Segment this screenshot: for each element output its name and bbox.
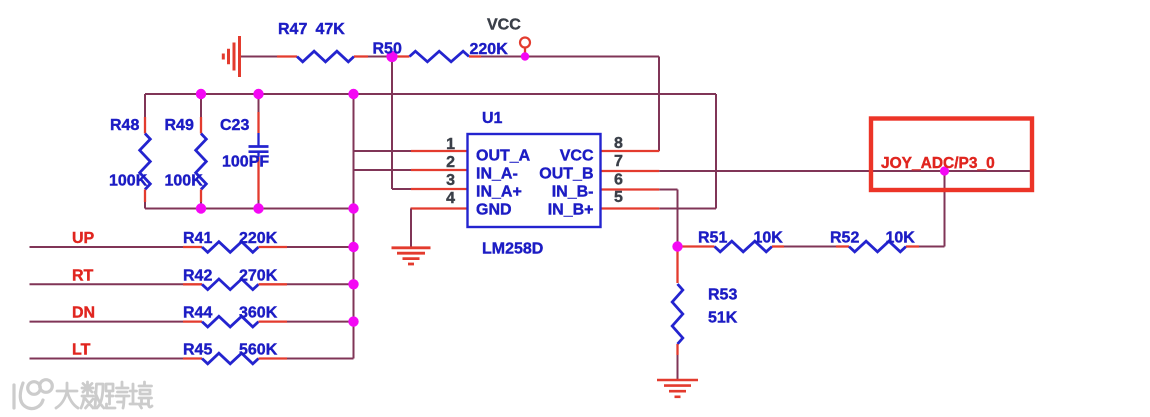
svg-text:R49: R49 <box>165 117 194 134</box>
svg-text:VCC: VCC <box>487 17 521 34</box>
svg-text:3: 3 <box>446 172 455 189</box>
svg-text:R50: R50 <box>373 41 402 58</box>
svg-text:51K: 51K <box>708 310 738 327</box>
svg-text:220K: 220K <box>239 230 278 247</box>
svg-text:1: 1 <box>446 136 455 153</box>
svg-text:R42: R42 <box>183 267 212 284</box>
svg-text:270K: 270K <box>239 267 278 284</box>
svg-text:VCC: VCC <box>560 148 594 165</box>
svg-text:OUT_A: OUT_A <box>476 148 531 165</box>
svg-text:560K: 560K <box>239 342 278 359</box>
svg-text:2: 2 <box>446 154 455 171</box>
svg-text:JOY_ADC/P3_0: JOY_ADC/P3_0 <box>881 155 995 172</box>
svg-text:47K: 47K <box>316 21 346 38</box>
svg-text:UP: UP <box>72 230 95 247</box>
svg-text:GND: GND <box>476 202 512 219</box>
svg-text:R52: R52 <box>830 230 859 247</box>
svg-text:4: 4 <box>446 190 455 207</box>
svg-text:100K: 100K <box>109 173 148 190</box>
svg-text:100K: 100K <box>165 173 204 190</box>
svg-text:R53: R53 <box>708 287 737 304</box>
svg-text:7: 7 <box>614 153 623 170</box>
svg-text:R51: R51 <box>698 230 727 247</box>
svg-text:R41: R41 <box>183 230 212 247</box>
svg-text:OUT_B: OUT_B <box>539 166 593 183</box>
svg-text:8: 8 <box>614 135 623 152</box>
svg-text:C23: C23 <box>220 117 249 134</box>
svg-text:RT: RT <box>72 267 94 284</box>
svg-text:IN_A-: IN_A- <box>476 166 518 183</box>
svg-text:R48: R48 <box>110 117 139 134</box>
svg-text:IN_A+: IN_A+ <box>476 184 522 201</box>
svg-text:U1: U1 <box>482 110 503 127</box>
svg-text:LT: LT <box>72 342 91 359</box>
svg-text:IN_B-: IN_B- <box>552 184 594 201</box>
svg-text:R44: R44 <box>183 305 212 322</box>
svg-text:10K: 10K <box>886 230 916 247</box>
svg-text:IN_B+: IN_B+ <box>548 202 594 219</box>
svg-text:DN: DN <box>72 305 95 322</box>
svg-text:LM258D: LM258D <box>482 241 543 258</box>
svg-text:6: 6 <box>614 172 623 189</box>
svg-text:220K: 220K <box>470 41 509 58</box>
svg-text:R45: R45 <box>183 342 212 359</box>
svg-text:10K: 10K <box>754 230 784 247</box>
svg-text:R47: R47 <box>278 21 307 38</box>
svg-text:360K: 360K <box>239 305 278 322</box>
svg-text:100PF: 100PF <box>222 154 269 171</box>
svg-text:5: 5 <box>614 189 623 206</box>
